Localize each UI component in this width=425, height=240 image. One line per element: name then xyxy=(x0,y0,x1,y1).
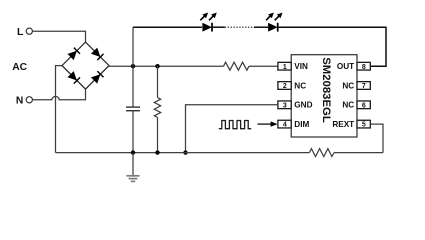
svg-text:NC: NC xyxy=(342,81,354,90)
terminal N xyxy=(26,97,32,103)
pin 6 box xyxy=(357,101,370,109)
bridge diode D4 (bottom to right) xyxy=(91,71,104,84)
bridge diode D3 (left to bottom) xyxy=(68,71,81,84)
wire LED rail left segment xyxy=(133,26,202,28)
svg-text:3: 3 xyxy=(283,102,287,109)
junction capacitor branch at bottom rail xyxy=(131,150,135,154)
svg-text:AC: AC xyxy=(12,62,27,73)
LED2 emission arrows xyxy=(266,13,283,21)
pin 3 box xyxy=(278,101,291,109)
wire LED1 cathode segment xyxy=(212,26,225,28)
wire GND pin to bottom rail xyxy=(186,105,278,153)
wire resistor R2 to bottom rail xyxy=(157,118,159,153)
PWM square-wave signal xyxy=(219,121,251,129)
svg-text:REXT: REXT xyxy=(332,120,354,129)
svg-text:8: 8 xyxy=(362,64,366,71)
svg-text:OUT: OUT xyxy=(337,62,354,71)
wire R1 to pin VIN xyxy=(249,65,278,67)
wire N to bridge bottom corner (hop over vertical) xyxy=(33,89,86,100)
svg-text:5: 5 xyxy=(362,122,366,129)
wire node B down to resistor R2 xyxy=(157,66,159,97)
pin 1 box xyxy=(278,62,291,70)
LED2 xyxy=(268,23,278,32)
resistor R2 (bleeder) xyxy=(154,98,160,118)
capacitor C1 xyxy=(126,107,140,111)
wire REXT pin to bottom rail xyxy=(371,124,383,153)
wire node A down to capacitor C1 xyxy=(132,66,134,107)
wire dotted continuation (more LEDs) xyxy=(225,26,254,28)
svg-text:N: N xyxy=(16,96,23,107)
node junction B (x=157.5) xyxy=(155,64,159,68)
svg-text:7: 7 xyxy=(362,83,366,90)
svg-text:SM2083EGL: SM2083EGL xyxy=(320,57,332,123)
svg-text:GND: GND xyxy=(294,101,312,110)
node junction A (x=133) xyxy=(131,64,135,68)
pin 2 box xyxy=(278,82,291,90)
svg-text:VIN: VIN xyxy=(294,62,308,71)
pin 8 box xyxy=(357,62,370,70)
pin 5 box xyxy=(357,120,370,128)
pin 4 box xyxy=(278,120,291,128)
wire bottom rail left of R3 xyxy=(56,152,310,154)
wire capacitor C1 to bottom rail xyxy=(132,111,134,153)
wire bridge right corner to resistor R1 xyxy=(108,65,223,67)
junction GND at bottom rail xyxy=(183,150,187,154)
bridge rectifier BD1 diamond xyxy=(62,42,109,89)
wire LED rail right segment down to OUT xyxy=(278,27,386,66)
svg-text:6: 6 xyxy=(362,102,366,109)
bridge diode D2 (top to right) xyxy=(91,48,104,61)
svg-text:L: L xyxy=(17,27,23,38)
junction resistor branch at bottom rail xyxy=(155,150,159,154)
wire L to bridge top corner xyxy=(33,31,86,43)
svg-text:NC: NC xyxy=(342,101,354,110)
ground xyxy=(126,153,139,182)
LED1 emission arrows xyxy=(200,13,217,21)
wire node A up to LED rail xyxy=(132,27,134,66)
svg-text:1: 1 xyxy=(283,64,287,71)
resistor R1 (series) xyxy=(224,62,250,70)
svg-text:4: 4 xyxy=(283,122,287,129)
svg-text:2: 2 xyxy=(283,83,287,90)
pin 7 box xyxy=(357,82,370,90)
wire LED2 anode segment xyxy=(254,26,268,28)
wire bridge left corner to bottom rail xyxy=(56,66,63,153)
arrow into DIM pin xyxy=(258,121,278,126)
svg-text:NC: NC xyxy=(294,81,306,90)
resistor R3 (REXT set resistor) xyxy=(309,149,334,157)
LED1 xyxy=(202,23,212,32)
wire bottom rail right of R3 xyxy=(334,152,383,154)
op-amp U1 SM2083EGL body xyxy=(291,55,357,137)
svg-text:DIM: DIM xyxy=(294,120,309,129)
terminal L xyxy=(26,28,32,34)
bridge diode D1 (left to top) xyxy=(68,48,81,61)
